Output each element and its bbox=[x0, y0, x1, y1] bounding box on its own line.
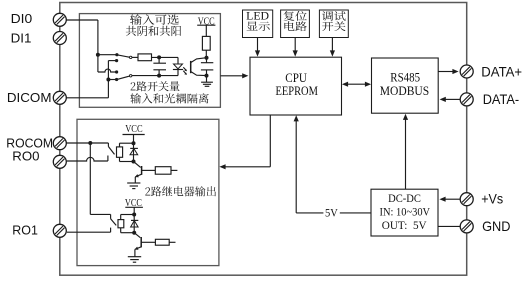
svg-text:DICOM: DICOM bbox=[7, 91, 52, 105]
svg-text:OUT: 5V: OUT: 5V bbox=[382, 218, 427, 232]
svg-text:5V: 5V bbox=[325, 206, 338, 220]
svg-text:VCC: VCC bbox=[198, 17, 215, 28]
svg-text:+Vs: +Vs bbox=[481, 191, 503, 206]
svg-text:VCC: VCC bbox=[125, 198, 142, 209]
svg-text:RO1: RO1 bbox=[12, 223, 38, 238]
svg-text:IN: 10~30V: IN: 10~30V bbox=[380, 204, 431, 218]
svg-text:DC-DC: DC-DC bbox=[388, 191, 421, 205]
svg-text:RO0: RO0 bbox=[12, 148, 39, 163]
svg-text:GND: GND bbox=[482, 219, 510, 234]
svg-text:EEPROM: EEPROM bbox=[276, 84, 318, 98]
svg-text:DATA-: DATA- bbox=[483, 92, 519, 107]
svg-text:MODBUS: MODBUS bbox=[380, 84, 430, 98]
svg-text:LED: LED bbox=[246, 11, 269, 23]
svg-text:DI1: DI1 bbox=[11, 30, 32, 45]
svg-text:RS485: RS485 bbox=[390, 70, 420, 84]
svg-text:DATA+: DATA+ bbox=[481, 65, 522, 80]
svg-text:DI0: DI0 bbox=[11, 11, 33, 26]
svg-text:VCC: VCC bbox=[125, 124, 143, 135]
